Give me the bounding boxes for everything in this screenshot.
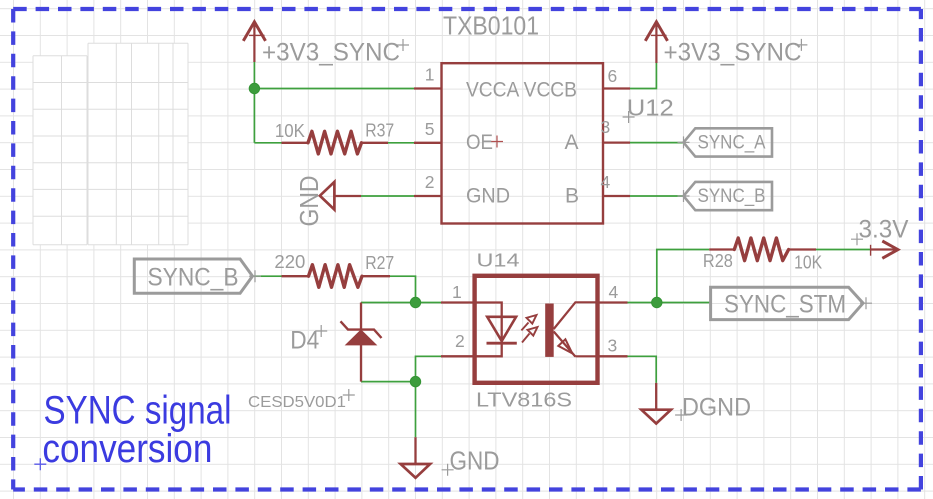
svg-text:3: 3 (601, 117, 611, 137)
svg-text:5: 5 (425, 119, 435, 139)
svg-text:2: 2 (425, 172, 435, 192)
svg-text:GND: GND (450, 446, 500, 476)
junction node +3V3_SYNC pin1 (249, 83, 259, 93)
svg-text:10K: 10K (275, 121, 305, 141)
wire node up to R28 (657, 250, 709, 303)
title block table center (88, 43, 188, 244)
IC U12 pin 3 stub (603, 141, 631, 143)
svg-text:220: 220 (274, 252, 305, 272)
opto U14 pin 3 stub (598, 355, 628, 357)
svg-text:R27: R27 (365, 253, 394, 273)
opto LED (476, 303, 517, 357)
wire pin 4 to SYNC_B flag (630, 195, 684, 197)
IC U12 pin 1 stub (414, 87, 442, 89)
supply DGND symbol (641, 383, 671, 424)
svg-text:GND: GND (294, 176, 324, 227)
svg-text:TXB0101: TXB0101 (443, 11, 539, 41)
svg-text:OE: OE (466, 131, 493, 154)
title text SYNC signal conversion (42, 388, 231, 471)
svg-text:3: 3 (608, 336, 618, 356)
wire zener top node row (361, 302, 441, 304)
junction node R27 zener pin1 (410, 297, 420, 307)
svg-text:SYNC signal: SYNC signal (44, 388, 232, 432)
IC U12 pin 5 stub (414, 142, 442, 144)
svg-text:SYNC_B: SYNC_B (148, 263, 239, 291)
svg-text:conversion: conversion (42, 427, 212, 471)
svg-text:SYNC_A: SYNC_A (698, 132, 766, 153)
svg-text:+3V3_SYNC: +3V3_SYNC (262, 39, 400, 67)
title block table left (33, 56, 87, 245)
svg-text:10K: 10K (794, 253, 822, 273)
zener diode D4 (341, 303, 382, 382)
wire R37 right to pin 5 (388, 142, 414, 144)
svg-text:VCCA VCCB: VCCA VCCB (466, 79, 577, 102)
net flag SYNC_STM (711, 287, 864, 319)
power 3.3V arrow (871, 241, 898, 258)
IC U12 pin 4 stub (603, 195, 631, 197)
svg-text:1: 1 (425, 65, 435, 85)
net flag SYNC_B upper (684, 182, 773, 210)
base bar (545, 304, 554, 357)
wire R27 right down to node (390, 276, 416, 302)
svg-text:1: 1 (452, 282, 462, 302)
supply GND bottom symbol (401, 437, 431, 478)
opto phototransistor (545, 302, 596, 357)
net flag SYNC_A (684, 128, 773, 156)
opto U14 pin 1 stub (441, 301, 475, 303)
svg-text:SYNC_B: SYNC_B (698, 186, 766, 207)
IC U12 body TXB0101 (442, 63, 604, 223)
junction node zener GND pin2 (410, 376, 420, 386)
collector (554, 302, 596, 329)
svg-text:+3V3_SYNC: +3V3_SYNC (664, 39, 802, 67)
opto U14 pin 2 stub (441, 355, 475, 357)
svg-text:4: 4 (601, 172, 611, 192)
power +3V3_SYNC right symbol (645, 22, 667, 63)
wire pin 3 to SYNC_A flag (630, 142, 684, 144)
svg-text:D4: D4 (290, 327, 319, 355)
junction node R28 SYNC_STM (652, 297, 662, 307)
optocoupler U14 body (475, 276, 598, 383)
origin cross blue title (34, 458, 46, 470)
wire pin 6 to +3V3_SYNC right (630, 63, 656, 89)
svg-text:B: B (565, 184, 579, 207)
svg-text:U14: U14 (477, 250, 520, 271)
wire net +3V3_SYNC left vertical (253, 62, 255, 143)
svg-text:4: 4 (609, 282, 619, 302)
resistor R37 (282, 131, 389, 154)
svg-text:2: 2 (455, 331, 465, 351)
svg-text:R28: R28 (703, 251, 733, 271)
wire SYNC_B flag to R27 (253, 275, 282, 277)
opto U14 pin 4 stub (598, 301, 628, 303)
wire node down to GND (415, 382, 417, 438)
wire opto pin2 corner (416, 356, 442, 381)
svg-text:R37: R37 (365, 121, 394, 141)
svg-text:3.3V: 3.3V (859, 216, 909, 244)
origin cross red OE (491, 136, 503, 148)
wire to R37 left (254, 142, 281, 144)
svg-text:GND: GND (466, 184, 510, 207)
svg-text:CESD5V0D1: CESD5V0D1 (248, 394, 346, 411)
resistor R28 (709, 238, 816, 261)
net flag SYNC_B lower (134, 259, 252, 293)
power +3V3_SYNC left symbol (243, 22, 265, 62)
emitter arrow (558, 339, 572, 353)
svg-text:LTV816S: LTV816S (476, 388, 572, 411)
resistor R27 (282, 265, 391, 288)
supply GND left symbol at pin 2 (320, 182, 361, 210)
IC U12 pin 2 stub (414, 195, 442, 197)
svg-text:SYNC_STM: SYNC_STM (724, 290, 846, 318)
svg-text:6: 6 (608, 66, 618, 86)
opto light arrows (521, 315, 537, 343)
wire opto pin4 to SYNC_STM (628, 302, 711, 304)
wire zener bottom to node (361, 381, 416, 383)
wire GND to pin 2 (361, 195, 415, 197)
svg-text:A: A (565, 131, 579, 154)
wire R28 right to 3.3V arrow (816, 249, 872, 251)
emitter (554, 332, 576, 357)
IC U12 pin 6 stub (603, 87, 631, 89)
svg-text:DGND: DGND (682, 394, 751, 422)
origin crosses gray (249, 39, 872, 476)
wire opto pin3 to DGND (628, 356, 657, 383)
wire +3V3_SYNC to pin 1 (254, 88, 414, 90)
